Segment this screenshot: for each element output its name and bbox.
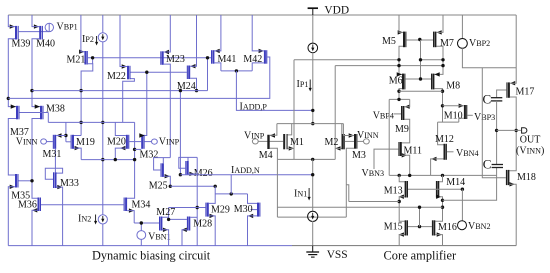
wire M4 drain up to tail bbox=[270, 124, 277, 136]
IP1 arrow bbox=[309, 80, 311, 89]
svg-text:M17: M17 bbox=[516, 87, 535, 98]
tail bus y159 bbox=[81, 159, 134, 161]
svg-text:M4: M4 bbox=[259, 150, 273, 161]
wire M3 drain up to tail bbox=[343, 124, 354, 136]
transistor M38 bbox=[40, 106, 42, 120]
wire M13 drain up bbox=[399, 175, 404, 181]
transistor M32 bbox=[141, 135, 143, 149]
transistor M12 bbox=[444, 144, 446, 160]
svg-text:VSS: VSS bbox=[327, 249, 348, 261]
wire y90 bus bbox=[32, 90, 208, 92]
tail wire bbox=[277, 123, 344, 125]
wire VBN1 to M27 gate bbox=[134, 222, 159, 224]
capacitor C1 bbox=[491, 97, 502, 99]
wire common drain bus y159 bbox=[277, 158, 335, 160]
transistor M37 bbox=[16, 106, 18, 120]
wire M2 source riser to tail bbox=[341, 124, 343, 135]
wire M24 drain to y90 bus bbox=[190, 78, 196, 90]
wire riser gate bus to y90 bus bbox=[207, 58, 209, 91]
wire M29 gate bbox=[197, 207, 205, 209]
wire pair bus left corner down to M19 gate bbox=[65, 122, 67, 141]
wire M7 drain down to M8 bbox=[434, 46, 443, 74]
svg-text:M32: M32 bbox=[140, 150, 159, 161]
wire VBP3 lead bbox=[467, 114, 473, 116]
input port VINP bbox=[152, 139, 158, 144]
transistor M41 bbox=[211, 50, 212, 64]
wire M21 source to VDD bbox=[81, 15, 85, 52]
wire M41 drain down bbox=[214, 63, 221, 71]
svg-text:M30: M30 bbox=[234, 204, 253, 215]
wire M16 source to VSS bbox=[435, 235, 442, 246]
wire OUT to port bbox=[497, 129, 521, 131]
svg-text:M38: M38 bbox=[46, 103, 65, 114]
wire M5 drain down to M6 bbox=[399, 46, 403, 74]
transistor M1 bbox=[283, 134, 285, 149]
wire M28 drain stub bbox=[190, 216, 197, 218]
wire M39 drain down to M37 bbox=[8, 39, 16, 107]
transistor M29 bbox=[205, 203, 206, 217]
wire M10 source tie to M8 bbox=[443, 105, 464, 107]
wire IN1 to ground bbox=[312, 221, 314, 246]
svg-text:VINP: VINP bbox=[244, 130, 265, 141]
svg-text:M6: M6 bbox=[389, 76, 403, 87]
svg-text:M25: M25 bbox=[149, 180, 168, 191]
wire M18 gate riser bbox=[482, 68, 506, 178]
wire M4 source down bbox=[270, 148, 278, 159]
wire riser M20 gate to M34 drain bbox=[127, 122, 135, 198]
wire M24 source to VDD bbox=[190, 15, 196, 66]
wire M26 source stub bbox=[189, 173, 198, 175]
node bias vertical top bus bbox=[101, 121, 104, 124]
svg-text:IN2: IN2 bbox=[78, 213, 91, 224]
wire M21 drain route to pair bus bbox=[81, 64, 93, 136]
node M40-M38 bus tap bbox=[30, 89, 33, 92]
svg-text:M26: M26 bbox=[194, 168, 213, 179]
wire B M2 drain to M8 bbox=[335, 65, 443, 67]
wire M31 source to M33 bbox=[54, 149, 56, 173]
transistor M39 bbox=[15, 26, 17, 40]
wire M22 gate bus to M24 gate bbox=[131, 71, 187, 73]
wire VBP4 lead bbox=[394, 113, 401, 115]
wire M14 drain up bbox=[439, 175, 442, 181]
wire M19 drain up to pair bus bbox=[74, 135, 81, 137]
wire M39 source to VDD bbox=[8, 15, 15, 27]
transistor M11 bbox=[398, 142, 399, 156]
wire y193 bus bbox=[215, 193, 247, 195]
transistor M16 bbox=[432, 220, 433, 235]
svg-text:(VINN): (VINN) bbox=[516, 146, 544, 157]
svg-text:M28: M28 bbox=[193, 219, 212, 230]
svg-text:VINP: VINP bbox=[159, 137, 180, 148]
svg-text:M41: M41 bbox=[218, 54, 237, 65]
svg-text:VBP2: VBP2 bbox=[469, 38, 490, 49]
wire M11 source down bbox=[402, 155, 410, 175]
transistor M27 bbox=[159, 217, 160, 231]
wire M22 source route to pair bus bbox=[123, 79, 135, 123]
input port VINP core bbox=[252, 139, 258, 144]
svg-text:C: C bbox=[483, 157, 492, 172]
pair bus y122 bbox=[48, 121, 134, 123]
svg-text:M33: M33 bbox=[60, 178, 79, 189]
wire M1 source riser to tail bbox=[288, 124, 292, 135]
svg-text:VBP1: VBP1 bbox=[57, 21, 78, 32]
wire M35 gate bbox=[19, 180, 33, 182]
svg-text:M8: M8 bbox=[446, 80, 460, 91]
IN2 arrow bbox=[95, 215, 97, 222]
node M21 drain on y90 bus bbox=[79, 89, 82, 92]
svg-text:VINN: VINN bbox=[16, 137, 38, 148]
wire y122 tie bbox=[438, 121, 459, 123]
svg-text:IN1: IN1 bbox=[294, 188, 307, 199]
transistor M13 bbox=[405, 181, 407, 198]
svg-text:M29: M29 bbox=[211, 204, 230, 215]
wire M9 source up bbox=[404, 99, 409, 106]
svg-text:VINN: VINN bbox=[357, 130, 379, 141]
transistor M10 bbox=[464, 105, 466, 119]
wire M21 gate bus to M23 M41 bbox=[88, 57, 211, 59]
wire riser M22 gate to M32 drain bbox=[142, 72, 146, 135]
wire M30 drain up bbox=[248, 194, 258, 204]
wire riser to M12 bbox=[438, 122, 444, 145]
svg-text:M10: M10 bbox=[444, 110, 463, 121]
transistor M42 bbox=[264, 50, 266, 64]
svg-text:M19: M19 bbox=[76, 137, 95, 148]
svg-text:M14: M14 bbox=[446, 177, 465, 188]
transistor M7 bbox=[433, 32, 434, 48]
transistor M17 bbox=[506, 82, 507, 97]
transistor M21 bbox=[84, 51, 86, 65]
svg-text:C: C bbox=[483, 91, 492, 106]
wire M13 source down to M15 bbox=[399, 197, 404, 222]
wire IP2 to IN2 vertical bbox=[102, 42, 104, 215]
wire M15 diode riser bbox=[419, 207, 421, 226]
bias source VBP1 bbox=[48, 23, 50, 31]
transistor M5 bbox=[403, 32, 405, 48]
svg-text:M12: M12 bbox=[435, 134, 454, 145]
transistor M40 bbox=[39, 26, 41, 40]
wire riser from box bbox=[346, 185, 349, 202]
svg-text:M36: M36 bbox=[18, 200, 37, 211]
wire M1 drain riser from M5 bbox=[293, 60, 295, 160]
node M39-M37 bus tap bbox=[7, 97, 10, 100]
wire OUT wire y199 bbox=[443, 168, 497, 201]
wire M8 drain down bbox=[434, 89, 442, 123]
wire A M1 drain to M5 bbox=[294, 59, 399, 61]
wire M6-M8 gate bus bbox=[405, 78, 431, 80]
ground symbol bbox=[312, 246, 314, 252]
wire M41 source to VDD bbox=[214, 15, 221, 51]
svg-text:IP1: IP1 bbox=[297, 79, 309, 90]
transistor M22 bbox=[127, 66, 129, 80]
node bias vertical tail bus bbox=[101, 158, 104, 161]
transistor M15 bbox=[405, 220, 407, 235]
wire M38 diode riser to pair bus bbox=[47, 113, 49, 123]
svg-text:M13: M13 bbox=[384, 185, 403, 196]
VDD symbol bbox=[308, 7, 318, 9]
wire M26 diode loop bbox=[179, 157, 197, 168]
wire M17 gate to cap bbox=[497, 90, 507, 98]
transistor M4 bbox=[267, 135, 268, 149]
svg-text:M22: M22 bbox=[107, 71, 126, 82]
svg-text:IADD,N: IADD,N bbox=[231, 165, 260, 176]
svg-text:M34: M34 bbox=[132, 199, 151, 210]
svg-text:M27: M27 bbox=[156, 207, 175, 218]
transistor M33 bbox=[53, 172, 54, 188]
wire M40 drain down to M38 bbox=[32, 39, 40, 107]
current source IN1 bbox=[308, 211, 318, 221]
current source IP1 bbox=[312, 15, 314, 43]
svg-text:VBN4: VBN4 bbox=[456, 148, 479, 159]
wire M30 gate stub bbox=[251, 209, 258, 211]
wire IN1 branch bbox=[312, 159, 314, 211]
wire box left edge bbox=[276, 159, 278, 217]
wire M20 drain up to pair bus bbox=[115, 122, 126, 135]
wire long left branch riser bbox=[388, 99, 390, 175]
wire y99 tie bbox=[389, 98, 410, 100]
node M31 drain tap bbox=[64, 134, 67, 137]
IN1 arrow bbox=[308, 188, 310, 198]
node M21 drain on pair bus bbox=[79, 121, 82, 124]
wire M39 gate to M40 bbox=[19, 31, 50, 33]
wire M13-M14 gate bus to VBN2 bbox=[408, 188, 462, 190]
svg-text:OUT: OUT bbox=[520, 134, 541, 145]
transistor M30 bbox=[257, 203, 259, 217]
transistor M20 bbox=[126, 135, 128, 149]
svg-text:M2: M2 bbox=[325, 137, 339, 148]
wire M19 gate bbox=[66, 141, 71, 143]
svg-text:M31: M31 bbox=[43, 149, 62, 160]
output port OUT bbox=[522, 128, 527, 133]
wire M23 source to VDD bbox=[164, 15, 171, 52]
wire M33 diode loop bbox=[45, 168, 62, 179]
svg-text:M18: M18 bbox=[517, 172, 536, 183]
svg-text:M39: M39 bbox=[12, 38, 31, 49]
transistor M6 bbox=[402, 74, 404, 90]
wire M5-M7 gate bus bbox=[406, 39, 433, 41]
wire M21 diode tie bbox=[92, 58, 94, 64]
wire box bottom bbox=[277, 216, 346, 218]
VSS rail bbox=[8, 245, 292, 247]
svg-text:Core amplifier: Core amplifier bbox=[384, 249, 457, 263]
wire M42 drain down bbox=[252, 63, 264, 71]
svg-text:M23: M23 bbox=[166, 54, 185, 65]
wire M9 drain to M11 bbox=[402, 119, 410, 143]
wire y207 to M29 gate riser bbox=[169, 207, 198, 209]
bias source VBN1 bbox=[140, 223, 142, 231]
svg-text:Dynamic biasing circuit: Dynamic biasing circuit bbox=[92, 249, 211, 263]
wire M3 gate to port and M2 gate bbox=[345, 140, 354, 142]
wire M1 drain stub bbox=[288, 147, 294, 149]
wire y201 tie bbox=[349, 201, 399, 203]
transistor M35 bbox=[15, 174, 17, 188]
wire VBN4 lead bbox=[447, 151, 454, 153]
wire M27 drain to M28 gate bbox=[169, 217, 187, 219]
wire M11 gate to VBN3 bbox=[374, 149, 398, 169]
wire M22 drain to VDD bbox=[120, 15, 127, 67]
bias source VBP2 bbox=[461, 15, 463, 39]
svg-text:VBN3: VBN3 bbox=[362, 168, 385, 179]
wire M15-M16 gate bus bbox=[408, 226, 432, 228]
wire M2 drain stub bbox=[335, 147, 341, 149]
wire M3 source down box right bbox=[346, 148, 354, 217]
transistor M31 bbox=[53, 135, 54, 149]
wire y175 bus bbox=[389, 174, 496, 176]
svg-text:VBP3: VBP3 bbox=[474, 112, 495, 123]
transistor M34 bbox=[124, 198, 125, 212]
wire y185 bus bbox=[170, 185, 215, 187]
wire IADDN to core bbox=[180, 174, 312, 176]
wire M36 source to VSS bbox=[32, 210, 38, 245]
wire M36-M34 gate bus bbox=[41, 204, 124, 206]
wire M28 source to VSS bbox=[182, 230, 187, 246]
svg-text:M1: M1 bbox=[290, 137, 304, 148]
wire cap1 to out node bbox=[496, 101, 498, 165]
svg-text:VDD: VDD bbox=[324, 5, 349, 17]
transistor M18 bbox=[506, 170, 507, 185]
wire M17 drain down to M18 bbox=[509, 97, 516, 171]
input port VINN core bbox=[364, 139, 370, 144]
wire M35 source to VSS bbox=[8, 187, 15, 246]
wire M6-M8 drain tie bbox=[399, 90, 443, 92]
wire M38 source to M36 bbox=[32, 119, 40, 199]
svg-text:VBP4: VBP4 bbox=[373, 110, 394, 121]
transistor M25 bbox=[161, 163, 162, 177]
wire M7 source to VDD bbox=[436, 15, 443, 32]
svg-text:M7: M7 bbox=[440, 38, 454, 49]
svg-text:M3: M3 bbox=[352, 150, 366, 161]
input port VINN bbox=[41, 139, 47, 144]
wire M31 drain tap bbox=[56, 135, 66, 137]
wire output rail y206 bbox=[277, 206, 442, 208]
svg-text:VBN2: VBN2 bbox=[468, 221, 491, 232]
wire M37-M38 gate wire bbox=[20, 112, 49, 114]
wire M7 drain tie bbox=[421, 59, 444, 61]
wire M10 drain down bbox=[459, 118, 464, 122]
svg-text:M15: M15 bbox=[384, 222, 403, 233]
wire M41-M42 drain tie bbox=[221, 70, 252, 72]
wire M25 diode loop bbox=[154, 158, 171, 170]
transistor M9 bbox=[401, 106, 402, 120]
transistor M2 bbox=[342, 134, 344, 149]
wire M20 gate to riser bbox=[129, 141, 141, 143]
wire M40 source to VDD bbox=[32, 15, 39, 27]
VDD power rail bbox=[8, 14, 516, 16]
wire M26 drain tap bbox=[187, 157, 189, 161]
wire M15 source to VSS bbox=[399, 235, 404, 246]
wire gate bias riser bbox=[420, 40, 422, 79]
wire gate bus y98 to M42 gate bbox=[8, 57, 270, 98]
svg-text:VBN1: VBN1 bbox=[148, 231, 171, 242]
wire M32 bottom stub bbox=[135, 148, 142, 150]
wire M42 source to VDD bbox=[252, 15, 264, 51]
wire M5 source to VDD bbox=[399, 15, 403, 32]
wire M17 source to VDD bbox=[510, 15, 516, 83]
wire M32 gate to port bbox=[145, 141, 152, 143]
svg-text:IP2: IP2 bbox=[82, 34, 94, 45]
transistor M24 bbox=[187, 66, 188, 80]
bias source VBN2 bbox=[461, 189, 463, 221]
wire M27 source to VSS bbox=[162, 230, 168, 246]
current source IN2 bbox=[98, 215, 107, 224]
transistor M26 bbox=[185, 161, 186, 175]
transistor M28 bbox=[187, 217, 188, 231]
svg-text:M42: M42 bbox=[243, 54, 262, 65]
wire M14 source down to M16 bbox=[435, 197, 442, 222]
svg-text:M11: M11 bbox=[404, 146, 423, 157]
transistor M23 bbox=[160, 51, 161, 65]
capacitor C2 bbox=[492, 164, 503, 166]
wire M29 source to VSS bbox=[209, 216, 215, 246]
wire IADDP to core bbox=[236, 71, 313, 111]
wire M19 source to tail bus bbox=[74, 148, 81, 160]
svg-text:IADD,P: IADD,P bbox=[240, 102, 268, 113]
wire M6 drain down bbox=[399, 89, 402, 100]
wire M18 source to VSS bbox=[509, 184, 516, 245]
transistor M8 bbox=[431, 74, 432, 90]
wire riser to IADDN bbox=[230, 175, 232, 194]
transistor M19 bbox=[71, 135, 72, 149]
wire M2 drain riser from wireB bbox=[334, 66, 336, 160]
transistor M14 bbox=[436, 181, 437, 198]
transistor M3 bbox=[354, 134, 356, 149]
wire M25 drain tap bbox=[162, 158, 164, 164]
wire M30 source to VSS bbox=[248, 216, 258, 246]
wire M29 drain up bbox=[209, 186, 215, 203]
svg-text:M9: M9 bbox=[395, 124, 409, 135]
svg-text:M21: M21 bbox=[67, 55, 86, 66]
svg-text:M20: M20 bbox=[107, 137, 126, 148]
wire M33 source to VSS bbox=[57, 187, 63, 246]
wire M25 source down bbox=[164, 176, 170, 186]
wire VINP to M1 gate through M4 bbox=[258, 140, 283, 142]
current source IP2 bbox=[102, 15, 104, 33]
wire M27 drain up bbox=[162, 208, 168, 218]
wire riser M26 to VSS bbox=[196, 157, 198, 245]
wire M34 source to VBN1 wire bbox=[127, 211, 134, 223]
wire M37 source to M35 bbox=[8, 119, 16, 176]
transistor M36 bbox=[38, 198, 40, 212]
svg-text:M16: M16 bbox=[438, 222, 457, 233]
wire M23 drain long riser to M25 bbox=[164, 64, 171, 158]
wire M12 source down bbox=[431, 159, 444, 176]
IP2 arrow bbox=[96, 36, 98, 43]
svg-text:M40: M40 bbox=[36, 38, 55, 49]
svg-text:M5: M5 bbox=[382, 36, 396, 47]
wire riser y90 bus to IADDN bbox=[179, 91, 181, 175]
wire M20 source to tail bus bbox=[115, 148, 126, 160]
